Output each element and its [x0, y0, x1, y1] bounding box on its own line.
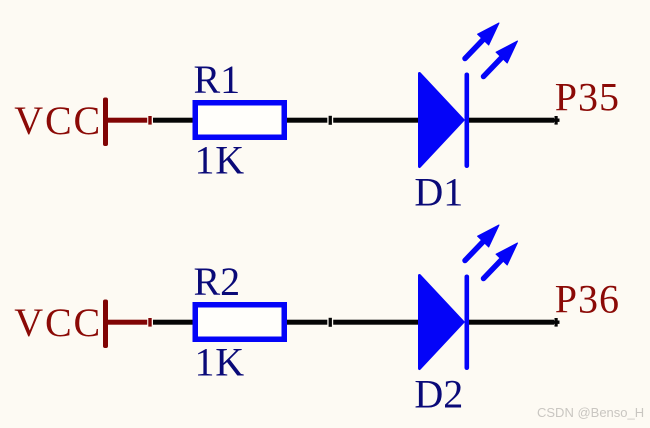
- svg-text:1K: 1K: [195, 138, 246, 183]
- wire junction to R1 (black, top): [153, 118, 194, 123]
- LED D2 cathode bar: [465, 275, 470, 371]
- resistor R1 body: [195, 103, 284, 138]
- wire D1 to P35 (black, top): [469, 118, 554, 123]
- wire VCC to R1 (red segment, top): [105, 118, 147, 123]
- svg-text:VCC: VCC: [14, 300, 102, 345]
- LED D2 emission arrow 1: [465, 225, 499, 261]
- pin junction cross (black, top): [329, 116, 332, 125]
- resistor R2 body: [195, 305, 284, 340]
- LED D2 emission arrow 2: [484, 243, 518, 279]
- wire R1 to D1 (black, left part): [287, 118, 327, 123]
- VCC power bar symbol (bottom): [103, 300, 108, 349]
- pin junction cross (black, bottom): [329, 318, 332, 327]
- wire junction to D1 (black, right part): [333, 118, 420, 123]
- LED D1 emission arrow 2: [484, 41, 518, 77]
- wire end cross (top): [554, 116, 560, 125]
- svg-text:P35: P35: [555, 75, 620, 120]
- wire R2 to D2 (black, left part): [287, 320, 327, 325]
- VCC power bar symbol (top): [103, 98, 108, 147]
- svg-text:P36: P36: [555, 277, 620, 322]
- LED D1 cathode bar: [465, 73, 470, 169]
- svg-text:R2: R2: [194, 259, 241, 304]
- LED D2 triangle (anode): [420, 276, 464, 369]
- wire VCC to R2 (red segment, bottom): [105, 320, 147, 325]
- LED D1 triangle (anode): [420, 74, 464, 167]
- wire junction to D2 (black, right part): [333, 320, 420, 325]
- svg-text:VCC: VCC: [14, 98, 102, 143]
- wire end cross (bottom): [554, 318, 560, 327]
- svg-text:1K: 1K: [195, 340, 246, 385]
- pin junction cross (red, bottom): [148, 318, 151, 327]
- LED D1 emission arrow 1: [465, 23, 499, 59]
- svg-text:D1: D1: [414, 170, 463, 215]
- svg-text:CSDN @Benso_H: CSDN @Benso_H: [537, 405, 644, 420]
- svg-text:D2: D2: [414, 372, 463, 417]
- wire junction to R2 (black, bottom): [153, 320, 194, 325]
- pin junction cross (red, top): [148, 116, 151, 125]
- wire D2 to P36 (black, bottom): [469, 320, 554, 325]
- svg-text:R1: R1: [194, 57, 241, 102]
